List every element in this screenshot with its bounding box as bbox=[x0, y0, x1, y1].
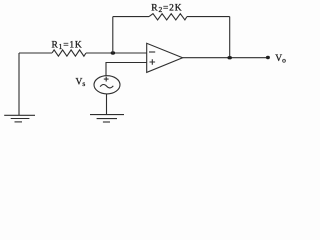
wire output bbox=[183, 57, 268, 59]
ground left bar1 bbox=[4, 114, 35, 116]
terminal dot Vo bbox=[266, 56, 270, 59]
source Vs circle bbox=[94, 76, 120, 94]
junction node inverting input bbox=[111, 51, 116, 54]
ground left bar3 bbox=[15, 121, 23, 123]
ground left bar2 bbox=[11, 118, 30, 120]
junction node output bbox=[227, 56, 232, 59]
wire input left segment bbox=[19, 52, 52, 54]
svg-text:R1=1K: R1=1K bbox=[52, 41, 83, 52]
resistor R2 zigzag bbox=[149, 14, 187, 20]
wire feedback top right segment bbox=[187, 16, 230, 18]
source sine wave bbox=[100, 84, 113, 87]
source polarity plus bbox=[104, 77, 109, 82]
wire noninverting input bbox=[106, 63, 147, 76]
ground source bar1 bbox=[90, 114, 124, 116]
svg-text:Vs: Vs bbox=[76, 78, 86, 89]
op-amp minus sign bbox=[149, 51, 155, 53]
op-amp U1 triangle bbox=[147, 43, 183, 72]
ground source bar2 bbox=[97, 118, 117, 120]
svg-text:R2=2K: R2=2K bbox=[151, 4, 182, 15]
resistor R1 zigzag bbox=[52, 50, 86, 56]
wire left vertical bbox=[18, 53, 20, 115]
op-amp plus sign bbox=[150, 59, 156, 65]
wire R1 to inverting junction bbox=[86, 52, 147, 54]
wire feedback left vertical bbox=[112, 17, 114, 53]
wire feedback right vertical bbox=[229, 17, 231, 58]
wire feedback top left segment bbox=[113, 16, 149, 18]
svg-text:Vo: Vo bbox=[275, 54, 286, 65]
ground source bar3 bbox=[103, 121, 110, 123]
wire source to ground bbox=[106, 94, 108, 115]
